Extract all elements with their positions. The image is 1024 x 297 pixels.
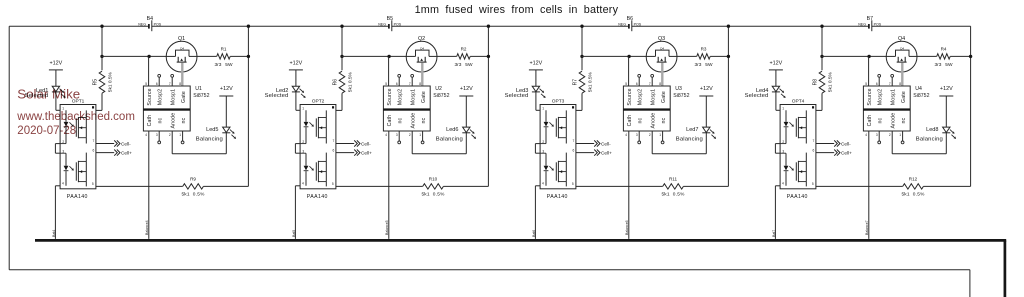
svg-text:8: 8 — [659, 82, 661, 86]
svg-text:POS: POS — [154, 23, 162, 27]
wire right vertical — [247, 26, 249, 186]
svg-text:POS: POS — [874, 23, 882, 27]
svg-text:5k1 0.5%: 5k1 0.5% — [901, 191, 925, 197]
node right vertical top — [487, 25, 490, 28]
op-amp OPT1 PAA140 box — [60, 98, 96, 199]
wire Cell+ output — [576, 150, 612, 156]
svg-text:4: 4 — [865, 133, 867, 137]
svg-text:Q4: Q4 — [898, 36, 905, 42]
resistor R1 — [215, 47, 233, 68]
svg-text:U2: U2 — [435, 86, 442, 92]
svg-text:6: 6 — [573, 148, 575, 152]
wire source pin — [868, 56, 870, 86]
svg-text:6: 6 — [333, 148, 335, 152]
svg-text:5k1 0.5%: 5k1 0.5% — [587, 71, 593, 92]
svg-text:Selected: Selected — [745, 93, 769, 99]
svg-text:Source: Source — [387, 88, 393, 105]
svg-text:Mosp1: Mosp1 — [651, 89, 657, 105]
svg-text:1: 1 — [782, 107, 784, 111]
wire thick balance bus bar — [35, 239, 1006, 242]
svg-text:Solar Mike: Solar Mike — [17, 87, 80, 102]
svg-text:1: 1 — [899, 133, 901, 137]
svg-text:2: 2 — [649, 133, 651, 137]
wire battery loop left border — [8, 26, 10, 270]
resistor R5 — [86, 56, 113, 110]
svg-text:2020-07-28: 2020-07-28 — [17, 125, 76, 137]
svg-text:R8: R8 — [813, 79, 819, 86]
wire thick balance bus right drop — [1004, 240, 1007, 297]
svg-text:Cath: Cath — [147, 115, 153, 127]
node source tap — [627, 55, 630, 58]
svg-text:nc: nc — [181, 117, 187, 123]
pin mosp2 nc — [398, 74, 401, 86]
svg-text:7: 7 — [409, 82, 411, 86]
node source tap — [387, 55, 390, 58]
svg-text:D4: D4 — [900, 47, 904, 51]
svg-text:Mosp1: Mosp1 — [411, 89, 417, 105]
wire mid left — [102, 55, 166, 57]
svg-text:R11: R11 — [669, 176, 678, 181]
svg-text:+12V: +12V — [220, 86, 233, 92]
wire top battery chain seg0 — [9, 25, 148, 27]
node cell1 neg junction mid — [100, 55, 103, 58]
svg-text:U4: U4 — [915, 86, 922, 92]
pin nc bottom 3 — [638, 131, 641, 144]
svg-text:+12V: +12V — [530, 61, 543, 67]
wire +12V to Led — [55, 70, 57, 86]
svg-text:Q3: Q3 — [658, 36, 665, 42]
node cell1 neg junction top — [100, 25, 103, 28]
transistor Q3 — [646, 36, 677, 72]
battery B7 — [858, 16, 882, 31]
svg-text:Balance6: Balance6 — [625, 220, 629, 235]
opto cell 2 glyph — [784, 161, 807, 182]
LED Led6 Balancing — [436, 127, 476, 154]
pin nc bottom 1 — [421, 131, 424, 144]
svg-text:Anode: Anode — [891, 113, 897, 129]
node source tap — [867, 55, 870, 58]
svg-text:1: 1 — [419, 133, 421, 137]
wire net Bat6 vertical — [535, 186, 540, 239]
svg-text:Balance4: Balance4 — [145, 220, 149, 235]
wire mid left — [342, 55, 406, 57]
LED Led8 Balancing — [916, 127, 956, 154]
svg-text:2: 2 — [409, 133, 411, 137]
svg-text:R6: R6 — [333, 79, 339, 86]
opto cell 1 wiring — [780, 110, 806, 143]
svg-text:1: 1 — [659, 133, 661, 137]
pin mosp1 nc — [171, 74, 174, 86]
wire battery loop bottom right drop — [969, 270, 971, 297]
svg-text:B7: B7 — [867, 16, 873, 22]
resistor R8 — [806, 56, 833, 110]
wire mid to right vertical — [470, 55, 488, 57]
svg-text:Source: Source — [627, 88, 633, 105]
node net label Bat6 — [532, 230, 536, 237]
resistor R3 — [695, 47, 713, 68]
svg-text:Led8: Led8 — [926, 127, 938, 133]
LED Led1 Selected — [25, 86, 66, 99]
svg-text:6: 6 — [813, 148, 815, 152]
LED Led3 Selected — [505, 86, 546, 99]
pin mosp2 nc — [638, 74, 641, 86]
svg-text:R3: R3 — [701, 47, 707, 52]
svg-text:B4: B4 — [147, 16, 153, 22]
svg-text:Mosp2: Mosp2 — [158, 89, 164, 105]
pin mosp1 nc — [411, 74, 414, 86]
svg-text:D4: D4 — [660, 47, 664, 51]
wire gate (highlighted) — [661, 63, 663, 87]
svg-text:6: 6 — [156, 82, 158, 86]
svg-text:R1: R1 — [221, 47, 227, 52]
node right vertical mid — [247, 55, 250, 58]
svg-text:1mm fused wires from cells in: 1mm fused wires from cells in battery — [415, 4, 619, 16]
node right vertical top — [727, 25, 730, 28]
svg-text:Mosp1: Mosp1 — [171, 89, 177, 105]
svg-text:POS: POS — [394, 23, 402, 27]
opto cell 2 wiring — [540, 153, 566, 187]
svg-text:NEG: NEG — [378, 23, 386, 27]
svg-text:3: 3 — [156, 133, 158, 137]
svg-text:nc: nc — [661, 117, 667, 123]
pin mosp1 nc — [651, 74, 654, 86]
wire mid left — [822, 55, 886, 57]
svg-text:Balancing: Balancing — [916, 137, 943, 143]
svg-text:7: 7 — [889, 82, 891, 86]
svg-text:B6: B6 — [627, 16, 633, 22]
svg-text:R10: R10 — [429, 176, 438, 181]
svg-text:Bat5: Bat5 — [292, 230, 296, 237]
svg-text:5k1 0.5%: 5k1 0.5% — [421, 191, 445, 197]
opto cell 1 wiring — [540, 110, 566, 143]
LED Led7 Balancing — [676, 127, 716, 154]
wire pin2-pin3 link — [55, 144, 60, 154]
svg-text:Gate: Gate — [901, 91, 907, 103]
svg-text:Led5: Led5 — [206, 127, 218, 133]
svg-text:www.thebackshed.com: www.thebackshed.com — [16, 111, 135, 123]
pin nc bottom 3 — [878, 131, 881, 144]
node net label Balance4 — [145, 220, 149, 235]
svg-text:Selected: Selected — [265, 93, 289, 99]
svg-text:Led7: Led7 — [686, 127, 698, 133]
chip U2 Si8752 — [383, 82, 449, 137]
wire source pin — [628, 56, 630, 86]
op-amp OPT2 PAA140 box — [300, 98, 336, 199]
svg-text:7: 7 — [813, 139, 815, 143]
svg-text:U1: U1 — [195, 86, 202, 92]
svg-text:5k1 0.5%: 5k1 0.5% — [181, 191, 205, 197]
resistor R9 — [96, 176, 249, 197]
node cell2 neg junction mid — [340, 55, 343, 58]
svg-text:6: 6 — [396, 82, 398, 86]
svg-text:+12V: +12V — [770, 61, 783, 67]
svg-text:nc: nc — [638, 117, 644, 123]
wire top battery chain seg2 — [392, 25, 628, 27]
resistor R7 — [566, 56, 593, 110]
opto cell 2 glyph — [544, 161, 567, 182]
node right vertical mid — [969, 55, 972, 58]
svg-text:Anode: Anode — [411, 113, 417, 129]
svg-text:Si8752: Si8752 — [913, 93, 929, 99]
svg-text:nc: nc — [901, 117, 907, 123]
LED Led4 Selected — [745, 86, 786, 99]
node cell3 neg junction mid — [580, 55, 583, 58]
svg-text:6: 6 — [93, 148, 95, 152]
svg-text:nc: nc — [158, 117, 164, 123]
node net label Balance7 — [865, 220, 869, 235]
svg-text:Anode: Anode — [171, 113, 177, 129]
wire right vertical — [727, 26, 729, 186]
svg-text:OPT4: OPT4 — [792, 98, 805, 104]
opto cell 2 glyph — [64, 161, 87, 182]
wire net Bat7 vertical — [775, 186, 780, 239]
wire left junction drop — [101, 26, 103, 56]
svg-text:Si8752: Si8752 — [433, 93, 449, 99]
svg-text:NEG: NEG — [858, 23, 866, 27]
wire battery loop bottom — [9, 269, 970, 271]
svg-text:R5: R5 — [93, 79, 99, 86]
svg-text:U3: U3 — [675, 86, 682, 92]
opto cell 2 glyph — [304, 161, 327, 182]
svg-text:Cath: Cath — [867, 115, 873, 127]
wire net Balance6 (Cath) — [628, 131, 630, 239]
svg-text:4: 4 — [302, 182, 304, 186]
wire Cell- output — [336, 140, 371, 146]
wire net Balance4 (Cath) — [148, 131, 150, 239]
svg-text:Source: Source — [147, 88, 153, 105]
battery B6 — [618, 16, 642, 31]
svg-text:+12V: +12V — [460, 86, 473, 92]
opto cell 1 glyph — [784, 117, 807, 138]
svg-text:nc: nc — [421, 117, 427, 123]
resistor R12 — [816, 176, 971, 197]
resistor R10 — [336, 176, 489, 197]
opto cell 1 glyph — [544, 117, 567, 138]
svg-text:5k1 0.5%: 5k1 0.5% — [661, 191, 685, 197]
svg-text:nc: nc — [398, 117, 404, 123]
resistor R4 — [935, 47, 953, 68]
svg-text:OPT2: OPT2 — [312, 98, 325, 104]
svg-text:6: 6 — [876, 82, 878, 86]
wire mid to right vertical — [950, 55, 970, 57]
svg-text:Si8752: Si8752 — [193, 93, 209, 99]
svg-text:Q2: Q2 — [418, 36, 425, 42]
svg-text:4: 4 — [625, 133, 627, 137]
wire Led to opto pin1 — [536, 92, 546, 110]
svg-text:5k1 0.5%: 5k1 0.5% — [827, 71, 833, 92]
svg-text:2: 2 — [169, 133, 171, 137]
wire Cell+ output — [336, 150, 372, 156]
svg-text:5: 5 — [385, 82, 387, 86]
svg-text:3: 3 — [396, 133, 398, 137]
svg-text:Balance5: Balance5 — [385, 220, 389, 235]
wire +12V to Led balancing — [945, 96, 947, 127]
svg-text:5k1 0.5%: 5k1 0.5% — [107, 71, 113, 92]
opto cell 2 wiring — [780, 153, 806, 187]
power +12V balancing — [939, 86, 953, 96]
svg-text:Selected: Selected — [505, 93, 529, 99]
svg-text:Anode: Anode — [651, 113, 657, 129]
LED Led5 Balancing — [196, 127, 236, 154]
svg-text:D4: D4 — [180, 47, 184, 51]
svg-text:PAA140: PAA140 — [547, 194, 568, 200]
pin mosp2 nc — [158, 74, 161, 86]
svg-text:Cath: Cath — [627, 115, 633, 127]
svg-text:7: 7 — [333, 139, 335, 143]
chip U3 Si8752 — [623, 82, 689, 137]
wire Led to opto pin1 — [56, 92, 66, 110]
svg-text:Cell+: Cell+ — [601, 150, 612, 155]
svg-text:5: 5 — [145, 82, 147, 86]
wire left junction drop — [821, 26, 823, 56]
title text — [415, 4, 619, 16]
wire Cell- output — [576, 140, 611, 146]
svg-text:5: 5 — [92, 182, 94, 186]
wire Led to opto pin1 — [296, 92, 306, 110]
svg-text:PAA140: PAA140 — [787, 194, 808, 200]
wire gate (highlighted) — [181, 63, 183, 87]
wire source pin — [148, 56, 150, 86]
svg-text:7: 7 — [573, 139, 575, 143]
transistor Q2 — [406, 36, 437, 72]
svg-text:3r3 5W: 3r3 5W — [935, 62, 953, 68]
node cell4 neg junction top — [820, 25, 823, 28]
svg-text:4: 4 — [782, 182, 784, 186]
node net label Bat5 — [292, 230, 296, 237]
svg-text:8: 8 — [899, 82, 901, 86]
wire pin2-pin3 link — [535, 144, 540, 154]
svg-text:NEG: NEG — [138, 23, 146, 27]
wire top battery chain seg3 — [632, 25, 868, 27]
node right vertical mid — [487, 55, 490, 58]
wire mid right — [437, 55, 457, 57]
svg-text:Cell-: Cell- — [121, 141, 131, 146]
svg-text:5: 5 — [625, 82, 627, 86]
resistor R2 — [455, 47, 473, 68]
wire +12V to Led — [775, 70, 777, 86]
svg-text:1: 1 — [62, 107, 64, 111]
wire net Balance5 (Cath) — [388, 131, 390, 239]
power +12V balancing — [459, 86, 473, 96]
wire right vertical — [487, 26, 489, 186]
svg-text:5k1 0.5%: 5k1 0.5% — [347, 71, 353, 92]
pin nc bottom 1 — [901, 131, 904, 144]
svg-text:Bat6: Bat6 — [532, 230, 536, 237]
svg-text:POS: POS — [634, 23, 642, 27]
svg-text:Mosp2: Mosp2 — [878, 89, 884, 105]
pin mosp2 nc — [878, 74, 881, 86]
svg-text:Balancing: Balancing — [676, 137, 703, 143]
svg-text:Gate: Gate — [661, 91, 667, 103]
svg-text:2: 2 — [889, 133, 891, 137]
resistor R6 — [326, 56, 353, 110]
power +12V selected — [769, 61, 783, 70]
svg-text:5: 5 — [865, 82, 867, 86]
text www.thebackshed.com — [16, 111, 135, 123]
svg-text:Source: Source — [867, 88, 873, 105]
svg-text:4: 4 — [385, 133, 387, 137]
svg-text:+12V: +12V — [700, 86, 713, 92]
svg-text:Bat4: Bat4 — [52, 230, 56, 237]
wire pin2-pin3 link — [775, 144, 780, 154]
svg-text:R12: R12 — [909, 176, 918, 181]
power +12V selected — [529, 61, 543, 70]
wire mid right — [677, 55, 697, 57]
wire Cell+ output — [816, 150, 852, 156]
svg-text:Cell-: Cell- — [601, 141, 611, 146]
battery B5 — [378, 16, 402, 31]
wire net Bat4 vertical — [55, 186, 60, 239]
svg-text:3r3 5W: 3r3 5W — [215, 62, 233, 68]
svg-text:1: 1 — [179, 133, 181, 137]
transistor Q1 — [166, 36, 197, 72]
svg-text:Balance7: Balance7 — [865, 220, 869, 235]
power +12V balancing — [699, 86, 713, 96]
wire mid right — [197, 55, 217, 57]
svg-text:R7: R7 — [573, 79, 579, 86]
svg-text:+12V: +12V — [290, 61, 303, 67]
svg-text:5: 5 — [812, 182, 814, 186]
wire top battery chain seg4 — [872, 25, 971, 27]
svg-text:PAA140: PAA140 — [67, 194, 88, 200]
svg-text:Cath: Cath — [387, 115, 393, 127]
svg-text:R9: R9 — [190, 176, 196, 181]
wire Led to opto pin1 — [776, 92, 786, 110]
svg-text:PAA140: PAA140 — [307, 194, 328, 200]
wire gate (highlighted) — [421, 63, 423, 87]
pin nc bottom 3 — [398, 131, 401, 144]
svg-text:Gate: Gate — [181, 91, 187, 103]
battery B4 — [138, 16, 162, 31]
resistor R11 — [576, 176, 729, 197]
wire +12V to Led — [295, 70, 297, 86]
wire gate (highlighted) — [901, 63, 903, 87]
wire net Balance7 (Cath) — [868, 131, 870, 239]
svg-text:4: 4 — [62, 182, 64, 186]
svg-text:6: 6 — [636, 82, 638, 86]
wire Cell- output — [816, 140, 851, 146]
transistor Q4 — [886, 36, 917, 72]
svg-text:Q1: Q1 — [178, 36, 185, 42]
svg-text:Cell+: Cell+ — [841, 150, 852, 155]
svg-text:Cell+: Cell+ — [121, 150, 132, 155]
svg-text:3r3 5W: 3r3 5W — [695, 62, 713, 68]
node cell3 neg junction top — [580, 25, 583, 28]
power +12V selected — [49, 61, 63, 70]
svg-text:+12V: +12V — [940, 86, 953, 92]
svg-text:Bat7: Bat7 — [772, 230, 776, 237]
svg-text:8: 8 — [179, 82, 181, 86]
wire anode pin — [412, 131, 466, 154]
svg-text:Mosp1: Mosp1 — [891, 89, 897, 105]
svg-text:7: 7 — [93, 139, 95, 143]
wire +12V to Led — [535, 70, 537, 86]
svg-text:3: 3 — [876, 133, 878, 137]
node net label Balance6 — [625, 220, 629, 235]
svg-text:NEG: NEG — [618, 23, 626, 27]
opto cell 2 wiring — [60, 153, 86, 187]
svg-text:Cell-: Cell- — [841, 141, 851, 146]
svg-text:nc: nc — [878, 117, 884, 123]
pin nc bottom 1 — [661, 131, 664, 144]
node right vertical mid — [727, 55, 730, 58]
svg-text:Gate: Gate — [421, 91, 427, 103]
wire +12V to Led balancing — [465, 96, 467, 127]
wire left junction drop — [581, 26, 583, 56]
wire Cell+ output — [96, 150, 132, 156]
wire anode pin — [892, 131, 946, 154]
wire anode pin — [652, 131, 706, 154]
